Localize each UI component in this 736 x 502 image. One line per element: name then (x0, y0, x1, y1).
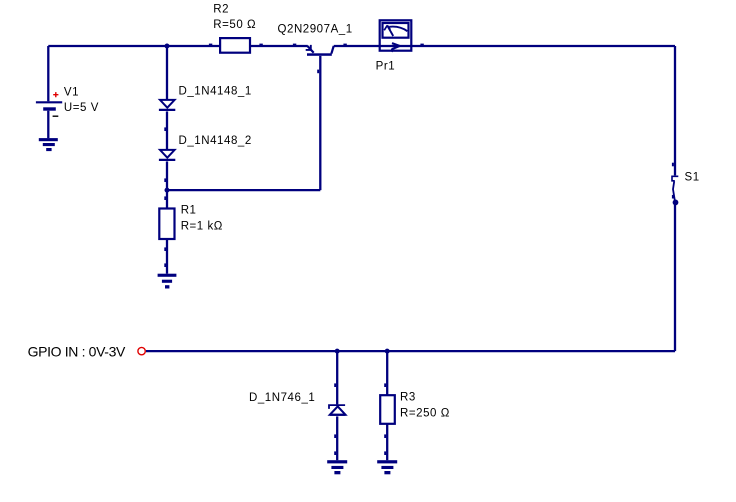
pin tick (zener top) (334, 383, 336, 387)
svg-text:U=5 V: U=5 V (64, 102, 99, 114)
wire through Pr1 (379, 45, 413, 47)
svg-text:D_1N746_1: D_1N746_1 (249, 392, 315, 404)
node junction (diodes / R1 / base wire) (165, 188, 170, 193)
pin tick (R3 top) (384, 383, 386, 387)
emitter arrow (306, 45, 312, 50)
pin tick (below D1) (164, 127, 166, 131)
wire R1 to ground (166, 239, 168, 274)
svg-text:D_1N4148_2: D_1N4148_2 (179, 135, 252, 147)
meter arc (389, 27, 407, 32)
pin tick (above S1) (672, 163, 674, 167)
pin tick (zener bottom) (334, 434, 336, 438)
svg-text:R2: R2 (213, 3, 229, 15)
svg-text:R3: R3 (400, 392, 416, 404)
meter needle (387, 25, 393, 36)
wire R3 to ground (386, 425, 388, 461)
pin tick (above R3 ground) (384, 451, 386, 455)
V1 minus sign (53, 115, 59, 117)
ground (below zener) (327, 460, 347, 474)
zener diode D_1N746_1 (329, 405, 346, 415)
wire junction to zener (336, 351, 338, 404)
node junction (R3 branch) (385, 349, 390, 354)
svg-text:Q2N2907A_1: Q2N2907A_1 (278, 24, 353, 36)
pin tick (before transistor) (293, 44, 296, 46)
svg-text:V1: V1 (64, 87, 79, 99)
pin tick (R1 top) (164, 196, 166, 200)
pin tick (above junction) (164, 178, 166, 182)
transistor Q2N2907A_1 (306, 45, 334, 56)
ground (below R1) (158, 274, 177, 289)
svg-text:Pr1: Pr1 (376, 61, 396, 73)
svg-text:R=1 kΩ: R=1 kΩ (181, 221, 223, 233)
current arrow (392, 43, 400, 49)
pin tick (above R1 ground) (164, 263, 166, 267)
ammeter probe Pr1 (379, 20, 413, 51)
svg-text:D_1N4148_1: D_1N4148_1 (179, 86, 252, 98)
wire diode chain upper (junction to D1) (166, 46, 168, 100)
svg-text:R1: R1 (181, 205, 197, 217)
wire base vertical (up to transistor) (319, 56, 321, 190)
wire bottom horizontal (146, 350, 675, 352)
wire R2 to transistor emitter (251, 45, 308, 47)
emitter slant (307, 46, 313, 53)
wire D2 to junction node (166, 161, 168, 190)
diode D_1N4148_2 (159, 150, 175, 160)
svg-text:R=250 Ω: R=250 Ω (400, 408, 450, 420)
node junction (zener branch) (335, 349, 340, 354)
wire zener to ground (336, 416, 338, 460)
wire base horizontal (junction to transistor base) (167, 189, 320, 191)
resistor R2 (220, 38, 250, 53)
wire left vertical (top wire down to V1 +) (47, 46, 49, 101)
wire junction to R3 (386, 351, 388, 395)
pin tick (R1 bottom) (164, 247, 166, 251)
switch S1 (672, 176, 678, 200)
V1 plus sign (53, 92, 58, 97)
svg-text:S1: S1 (685, 172, 700, 184)
switch contact dot (673, 200, 679, 206)
pin tick (above zener ground) (334, 451, 336, 455)
wire transistor collector to Pr1 (334, 45, 379, 47)
pin tick (R3 bottom) (384, 434, 386, 438)
wire top-left horizontal (V1 to R2) (48, 45, 220, 47)
terminal GPIO (red) (138, 347, 145, 354)
wire junction to R1 (166, 190, 168, 208)
node junction (top wire / diode chain) (165, 44, 170, 49)
wire Pr1 to right corner (413, 45, 676, 47)
pin tick (R2 right) (259, 44, 262, 46)
pin tick (base lead) (317, 70, 319, 74)
wire right vertical (to switch) (674, 46, 676, 175)
pin tick (below S1 lever) (672, 195, 674, 199)
diode D_1N4148_1 (159, 100, 175, 110)
svg-text:GPIO IN : 0V-3V: GPIO IN : 0V-3V (28, 343, 126, 359)
pin tick (R2 left) (209, 44, 212, 46)
battery V1 (36, 92, 62, 138)
resistor R1 (159, 209, 174, 240)
pin tick (after Pr1) (420, 44, 423, 46)
ground (below R3) (377, 460, 397, 474)
svg-text:R=50 Ω: R=50 Ω (213, 19, 256, 31)
wire between D1 and D2 (166, 111, 168, 149)
wire right vertical (switch to bottom corner) (674, 204, 676, 351)
resistor R3 (380, 395, 395, 424)
pin tick (before Pr1) (343, 44, 346, 46)
collector slant (331, 46, 333, 54)
ground (below V1) (39, 138, 58, 151)
base bar (307, 53, 332, 56)
